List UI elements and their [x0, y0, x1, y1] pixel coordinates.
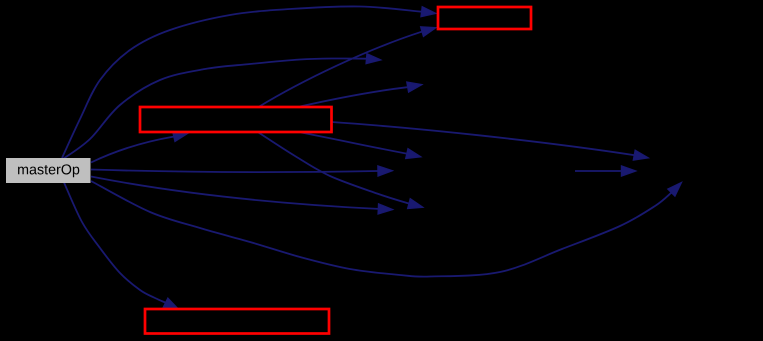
edge masterOp to bottom red node [64, 183, 179, 310]
node masterOp [6, 158, 91, 183]
middle red node box [140, 107, 332, 132]
edge masterOp to far right node [91, 181, 682, 277]
edge masterOp to node B [91, 166, 393, 177]
edge middle node to node F [332, 122, 650, 160]
edge node B to node H [575, 166, 637, 177]
edge middle node to top red node [259, 27, 437, 108]
edge middle node to node E [300, 82, 423, 107]
edge masterOp to top red node [62, 6, 437, 158]
edge middle node to node G [301, 133, 422, 159]
edge masterOp to node D [91, 177, 393, 215]
edge masterOp to middle red node [91, 131, 189, 162]
top red node box [438, 7, 531, 29]
bottom red node box [145, 309, 329, 334]
edge middle node to node C [259, 133, 424, 209]
edge masterOp to node A [63, 53, 382, 159]
